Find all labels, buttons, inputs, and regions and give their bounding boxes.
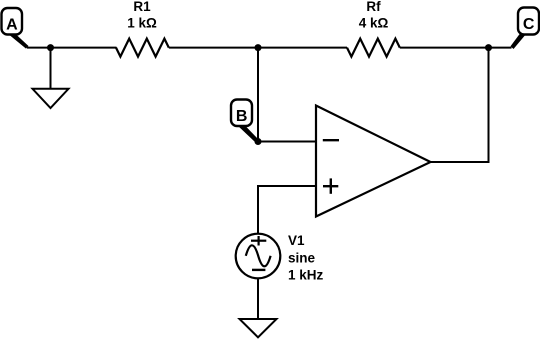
junction dot at node A (47, 44, 54, 51)
wire top-left A to R1 (27, 47, 117, 49)
resistor Rf (347, 39, 400, 57)
junction dot at node B (255, 138, 262, 145)
ground (under V1) (240, 319, 277, 337)
node A label (2, 8, 23, 35)
node C flag leader (511, 34, 527, 50)
svg-text:B: B (236, 108, 248, 125)
wire op-amp non-inverting input to V1 (258, 186, 317, 235)
op-amp U1 (316, 106, 431, 217)
svg-text:1 kΩ: 1 kΩ (127, 16, 157, 31)
ground (left, under node A) (33, 48, 69, 108)
resistor R1 (116, 39, 169, 57)
wire op-amp output (431, 48, 489, 162)
wire V1 to ground (257, 278, 259, 320)
node A flag leader (7, 33, 29, 49)
svg-text:Rf: Rf (366, 0, 381, 14)
wire mid junction down to node B (257, 48, 259, 142)
svg-text:A: A (6, 17, 18, 34)
junction dot at mid node (R1/Rf) (255, 44, 262, 51)
voltage source V1 (236, 234, 281, 279)
wire R1 to mid junction (169, 47, 258, 49)
svg-text:sine: sine (288, 250, 316, 265)
junction dot at node C (485, 44, 492, 51)
wire Rf to node C (400, 47, 512, 49)
node B flag leader (237, 125, 259, 143)
svg-text:R1: R1 (133, 0, 151, 14)
wire node B to op-amp inverting input (258, 141, 317, 143)
svg-text:C: C (523, 16, 535, 33)
svg-text:4 kΩ: 4 kΩ (359, 16, 389, 31)
node B label (231, 100, 252, 127)
node C label (518, 8, 539, 35)
svg-text:V1: V1 (288, 233, 305, 248)
svg-text:1 kHz: 1 kHz (288, 268, 324, 283)
wire mid junction to Rf (258, 47, 347, 49)
